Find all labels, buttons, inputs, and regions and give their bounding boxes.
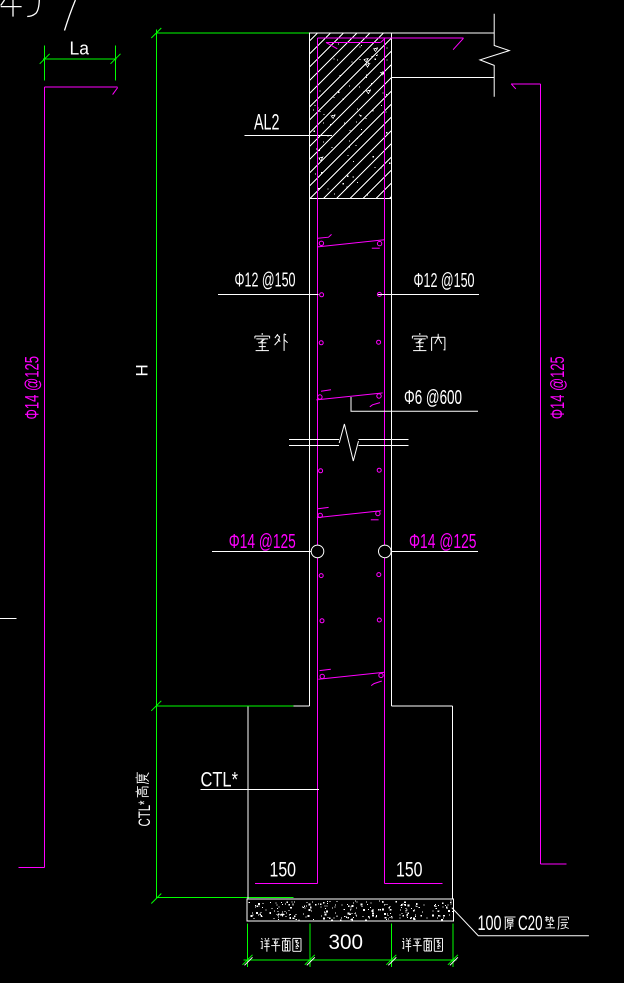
dimension H middle tick at footing top [151,701,161,711]
bottom dimension extension line 3 [390,924,392,968]
distribution bar circle row 1 left [320,293,324,297]
dimension H label [133,364,152,376]
dimension La tick right [111,54,121,64]
rebar left outer bar bottom leg [18,866,44,868]
dimension La extension line right [115,46,117,81]
bottom dimension tick 4 green [448,955,458,965]
bottom dimension tick 2 white [307,957,315,965]
label 100 thick C20 bedding leader [452,908,589,936]
distribution bar circle row 3 left [319,469,323,473]
bottom dimension extension line 4 [452,924,454,968]
distribution bar circle row 2 left [319,341,323,345]
svg-text:Φ14 @125: Φ14 @125 [229,531,296,553]
label phi12@150 left leader underline [218,293,319,295]
label phi14@125 right leader underline [391,550,478,552]
lap splice circle left [311,545,324,558]
tie bar T3 left hook [318,507,329,508]
bottom dimension tick 3 green [386,955,396,965]
tie bar T2 left hook [321,390,331,392]
partial text glyph ) (top-left, cropped) [65,0,76,31]
beam AL2 concrete stipple dots [313,43,390,195]
tie bar T4 left end circle [320,674,324,678]
label AL2 underline leader [244,135,332,137]
distribution bar circle row 4 left [319,574,323,578]
rebar right outer bar top leg [511,83,540,85]
svg-text:100: 100 [478,912,502,935]
rebar beam hook bar left hook [326,42,337,48]
bottom dimension extension line 1 [247,924,249,968]
partial text glyph 4 (top-left, cropped) [1,0,22,17]
dimension extension at footing top [156,705,293,707]
svg-text:Φ12 @150: Φ12 @150 [235,270,296,292]
label CTL*height vertical [135,772,154,826]
bottom dimension tick 2 green [305,955,315,965]
wall left face [308,199,310,706]
rebar beam hook bar horizontal [326,41,381,43]
label indoor (shi nei) [419,333,421,335]
footing top edge right [392,705,453,707]
svg-text:150: 150 [270,859,297,882]
dimension H vertical line [155,30,157,899]
label outdoor (shi wai) [261,333,263,335]
svg-text:Φ6 @600: Φ6 @600 [404,386,462,409]
tie bar T3 left end circle [318,513,322,517]
tie bar T2 diagonal [316,393,382,400]
rebar right outer bar vertical [540,84,542,864]
svg-text:CTL*: CTL* [135,800,154,826]
svg-text:Φ12 @150: Φ12 @150 [414,270,475,292]
slab bottom line [392,77,495,79]
label phi14@125 left leader underline [212,550,311,552]
wall break symbol right lower line [359,444,409,446]
rebar top anchorage horizontal in beam [317,37,463,39]
distribution bar circle row 2 right [377,340,381,344]
rebar right bar bottom bend [384,883,442,885]
bottom dimension tick 3 white [388,957,396,965]
label phi6@600 leader polyline [351,397,478,411]
tie bar T1 left hook [318,234,332,238]
dimension extension overlay at footing top [156,705,293,707]
rebar beam hook bar right slash [381,39,385,43]
tie bar T4 right hook [371,681,382,686]
distribution bar circle row 5 left [320,619,324,623]
svg-text:Φ14 @125: Φ14 @125 [409,531,477,553]
rebar right outer bar arrow slash [511,84,516,89]
svg-text:150: 150 [396,859,423,882]
distribution bar circle row 5 right [377,618,381,622]
footing right edge [451,706,453,899]
tie bar T1 right end circle [377,241,381,245]
bottom dimension tick 1 green [243,955,253,965]
rebar left outer bar end slash [113,88,118,95]
tie bar T1 left end circle [319,241,323,245]
dimension H top extension to wall [156,32,309,34]
beam AL2 outline [309,33,391,199]
distribution bar circle row 4 right [377,573,381,577]
rebar left outer bar top horizontal leg [44,86,117,88]
tie bar T2 left end circle [318,395,322,399]
distribution bar circle row 3 right [377,468,381,472]
partial text glyph 5 (top-left, cropped) [27,0,39,17]
wall break symbol zigzag [339,424,358,461]
distribution bar circle row 1 right [377,292,381,296]
bedding layer outline [247,899,454,921]
rebar left outer bar vertical [43,87,45,867]
dimension La extension line left [44,46,46,81]
svg-text:CTL*: CTL* [201,768,239,791]
bedding layer stipple [249,901,454,922]
bottom dimension tick 1 white [245,957,253,965]
svg-text:Φ14 @125: Φ14 @125 [23,356,44,420]
lap splice circle right [379,545,392,558]
dimension CTL height bottom tick [151,894,161,904]
label CTL* leader underline [201,788,319,790]
wall right face [391,199,393,706]
tie bar T4 diagonal [318,672,384,679]
rebar left bar bottom bend [255,883,317,885]
left margin stray line [0,617,17,619]
tie bar T1 right hook [372,247,380,249]
dimension extension at footing bottom [156,897,293,899]
label phi12@150 right leader underline [378,293,479,295]
wall break symbol left upper line [289,438,339,440]
svg-text:Φ14 @125: Φ14 @125 [548,356,569,419]
tie bar T2 right end circle [377,394,381,398]
dimension La line [43,58,116,60]
slab top line [392,32,495,34]
svg-text:AL2: AL2 [254,110,280,135]
bottom dimension extension line 2 [309,924,311,968]
tie bar T3 right end circle [376,511,380,515]
label phi14@125 left vertical [23,356,44,420]
svg-text:H: H [133,364,152,376]
svg-text:C20: C20 [518,912,543,935]
svg-text:300: 300 [329,931,364,954]
label see-plan right (xiang ping mian tu) [403,938,404,940]
slab break line with zigzag [480,14,509,97]
tie bar T3 diagonal [317,511,381,518]
label see-plan left (xiang ping mian tu) [261,938,262,940]
rebar top anchorage end slash [453,38,463,50]
tie bar T3 right hook [371,519,379,521]
wall break symbol right upper line [359,438,409,440]
rebar right outer bar bottom leg [541,863,567,865]
rebar wall left vertical bar [316,38,318,884]
wall break symbol left lower line [289,444,339,446]
tie bar T2 right hook [370,403,380,407]
dimension H top tick [151,28,161,38]
rebar wall right vertical bar [383,38,385,884]
bottom dimension tick 4 white [450,957,458,965]
tie bar T1 diagonal [318,240,385,247]
tie bar T4 right end circle [379,673,383,677]
label phi14@125 right vertical [548,356,569,419]
bottom dimension line [244,959,457,961]
footing left edge [247,706,249,899]
tie bar T4 left hook [320,669,331,670]
footing top edge left [248,705,310,707]
svg-text:La: La [70,38,90,59]
dimension La tick left [40,54,50,64]
